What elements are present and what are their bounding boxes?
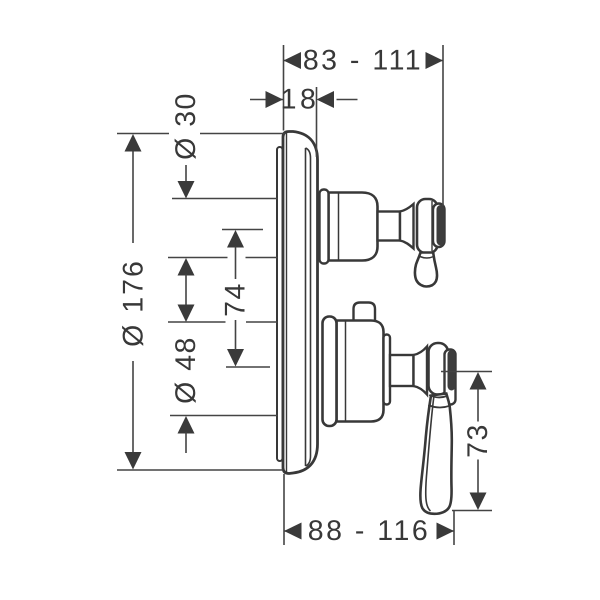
svg-text:83 - 111: 83 - 111 bbox=[303, 45, 423, 77]
lower valve ring bbox=[384, 335, 391, 405]
svg-text:74: 74 bbox=[220, 282, 252, 317]
upper valve stem bbox=[378, 212, 401, 241]
svg-text:18: 18 bbox=[281, 84, 320, 116]
dimension D48 left bbox=[168, 305, 278, 454]
dimension 88-116 bottom bbox=[284, 474, 454, 547]
lower valve stem bbox=[390, 355, 414, 386]
svg-text:Ø 30: Ø 30 bbox=[170, 92, 202, 160]
lower valve top knob bbox=[354, 303, 376, 321]
dimension 74 bbox=[220, 230, 270, 368]
dimension D30 left bbox=[168, 92, 278, 305]
svg-text:Ø 48: Ø 48 bbox=[170, 336, 202, 404]
dimension D176 left bbox=[117, 134, 285, 471]
upper valve flange bbox=[320, 190, 329, 264]
dimension 18 top bbox=[250, 84, 358, 158]
lower handle front cap bbox=[445, 350, 456, 405]
escutcheon back flange bbox=[277, 147, 283, 461]
lower handle knob bbox=[429, 343, 449, 395]
lever neck collar bbox=[428, 395, 449, 408]
svg-text:88 - 116: 88 - 116 bbox=[308, 515, 430, 547]
svg-text:Ø 176: Ø 176 bbox=[117, 259, 149, 347]
svg-text:73: 73 bbox=[462, 423, 494, 458]
plate rim inner line bbox=[286, 133, 288, 473]
dimension 73 right bbox=[441, 372, 494, 511]
upper valve body bbox=[329, 193, 378, 261]
lever grip bbox=[420, 394, 451, 514]
lower valve flange bbox=[323, 317, 337, 427]
upper handle lower grip bbox=[415, 253, 437, 287]
upper handle knob bar bbox=[417, 199, 438, 253]
lower handle bell bbox=[414, 347, 428, 395]
dimension 83-111 top bbox=[284, 45, 444, 207]
plate face contour bbox=[306, 148, 311, 466]
upper handle front arm bbox=[433, 204, 445, 248]
upper handle bell bbox=[400, 204, 414, 249]
lower valve body bbox=[337, 321, 384, 422]
escutcheon plate disc bbox=[283, 132, 318, 474]
